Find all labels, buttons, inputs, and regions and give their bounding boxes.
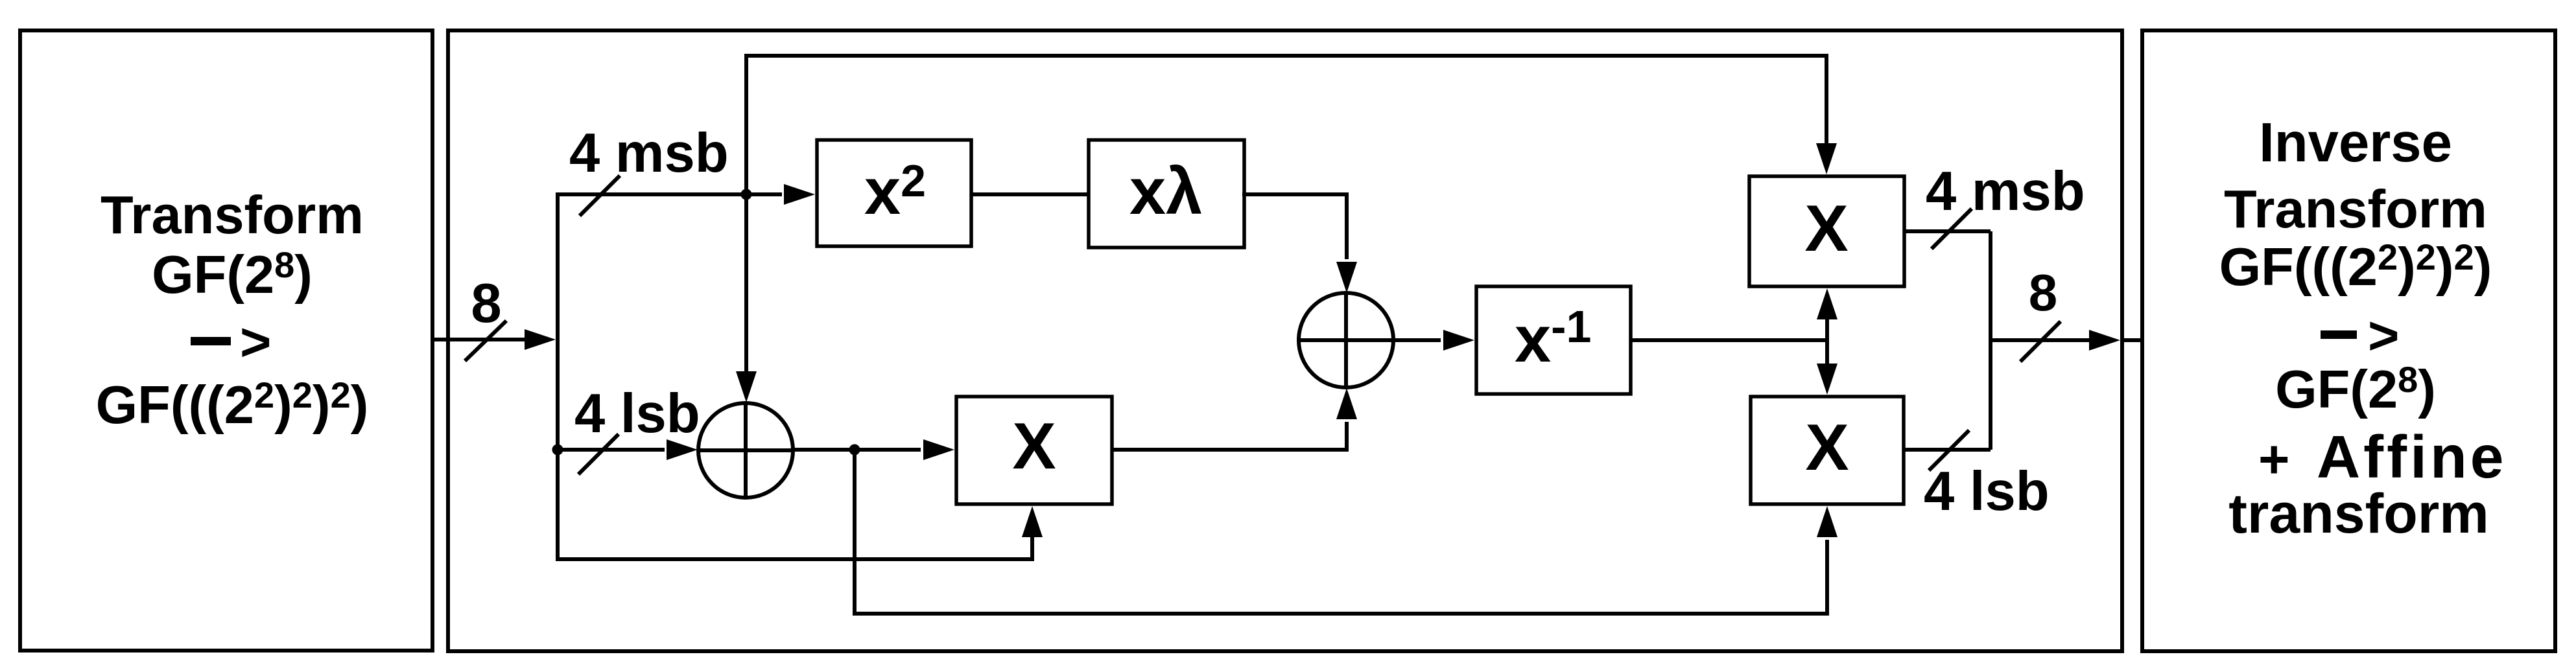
block: x^-1 inverter [1476, 286, 1631, 394]
svg-text:Affine: Affine [2317, 423, 2507, 491]
node: lower XOR (msb + lsb) [698, 403, 793, 498]
slash: input 8 bus width mark [465, 321, 506, 361]
svg-text:GF(((22)2)2): GF(((22)2)2) [96, 375, 369, 435]
arrowhead: up into bottom-right multiplier [1817, 506, 1837, 537]
wire: msb down into lower XOR [744, 194, 748, 371]
arrowhead: msb into lower XOR top [736, 371, 757, 402]
svg-text:X: X [1804, 192, 1848, 265]
block: top-right multiplier X [1749, 176, 1904, 286]
arrowhead: lsb bypass up into multiplier bottom [1022, 506, 1043, 537]
arrowhead: down into bottom-right multiplier top [1817, 364, 1837, 395]
slash: output 4 lsb width mark [1929, 430, 1969, 470]
svg-text:4 msb: 4 msb [569, 122, 729, 184]
junction dot: xor output node [849, 445, 860, 456]
wire: lower XOR output to multiplier [792, 448, 921, 452]
wire: output 8 bus to Inverse Transform box [1991, 338, 2142, 342]
wire: x^-1 output to right multipliers tee [1631, 319, 1827, 364]
junction dot: lsb node [552, 445, 563, 456]
arrowhead: into middle multiplier [923, 439, 954, 460]
svg-text:4 lsb: 4 lsb [1924, 461, 2050, 522]
svg-text:>: > [2368, 305, 2399, 365]
slash: 4 lsb bus width mark [578, 434, 619, 474]
arrowhead: into upper XOR bottom [1336, 388, 1357, 419]
arrowhead: into x^2 block [784, 184, 815, 205]
wire: bottom-right multiplier output, 4 lsb [1904, 448, 1991, 452]
block: x^2 [817, 140, 971, 246]
wire: msb feedback over the top to right multiplier [746, 56, 1826, 194]
wire: top-right multiplier output, 4 msb [1904, 229, 1991, 233]
slash: 4 msb bus width mark [580, 176, 620, 216]
wire: xor output down to bottom feedback to bottom-right multiplier [855, 450, 1827, 614]
arrowhead: input 8 bus [525, 329, 556, 350]
wire: 4 lsb into lower XOR [558, 448, 665, 452]
svg-text:4 msb: 4 msb [1926, 161, 2085, 222]
block: middle GF inversion box [448, 30, 2122, 651]
svg-text:+: + [2258, 429, 2289, 489]
block: xlambda [1089, 140, 1244, 248]
wire: output collector vertical [1989, 231, 1992, 450]
wire: x^2 to xlambda [971, 192, 1089, 196]
node: upper XOR [1299, 293, 1393, 387]
junction dot: msb node [741, 189, 752, 200]
svg-text:xλ: xλ [1129, 156, 1202, 228]
svg-text:X: X [1012, 410, 1056, 483]
block: bottom-right multiplier X [1751, 397, 1904, 504]
slash: output 4 msb width mark [1932, 209, 1972, 249]
svg-text:4 lsb: 4 lsb [574, 383, 700, 445]
block: Transform GF(2^8) box [20, 30, 432, 651]
arrowhead: into upper XOR top [1336, 262, 1357, 293]
arrowhead: output 8 bus [2089, 330, 2120, 351]
svg-text:Inverse: Inverse [2259, 112, 2452, 174]
block: Inverse Transform box [2142, 30, 2555, 651]
svg-text:Transform: Transform [100, 185, 364, 245]
arrowhead: up into top-right multiplier bottom [1817, 288, 1837, 319]
arrowhead: down into top-right multiplier [1816, 143, 1837, 174]
arrowhead: lsb into lower XOR left [667, 439, 698, 460]
wire: upper XOR output to x^-1 [1392, 338, 1441, 342]
svg-text:X: X [1805, 411, 1849, 484]
block: middle multiplier X [956, 397, 1112, 504]
svg-text:transform: transform [2228, 483, 2488, 545]
svg-text:8: 8 [471, 273, 501, 334]
slash: output 8 bus width mark [2020, 321, 2061, 362]
svg-text:Transform: Transform [2224, 179, 2487, 239]
wire: xlambda output down into upper XOR [1242, 194, 1347, 259]
svg-text:>: > [240, 312, 271, 372]
svg-text:8: 8 [2029, 264, 2058, 321]
arrowhead: into x^-1 [1443, 330, 1474, 351]
wire: middle multiplier output up into upper XOR bottom [1112, 422, 1347, 450]
wire: split vertical + 4 msb wire + lsb bypass to multiplier [558, 194, 1032, 559]
wire: input 8 bus from Transform box to split node [431, 338, 526, 341]
svg-text:GF(((22)2)2): GF(((22)2)2) [2219, 237, 2492, 297]
